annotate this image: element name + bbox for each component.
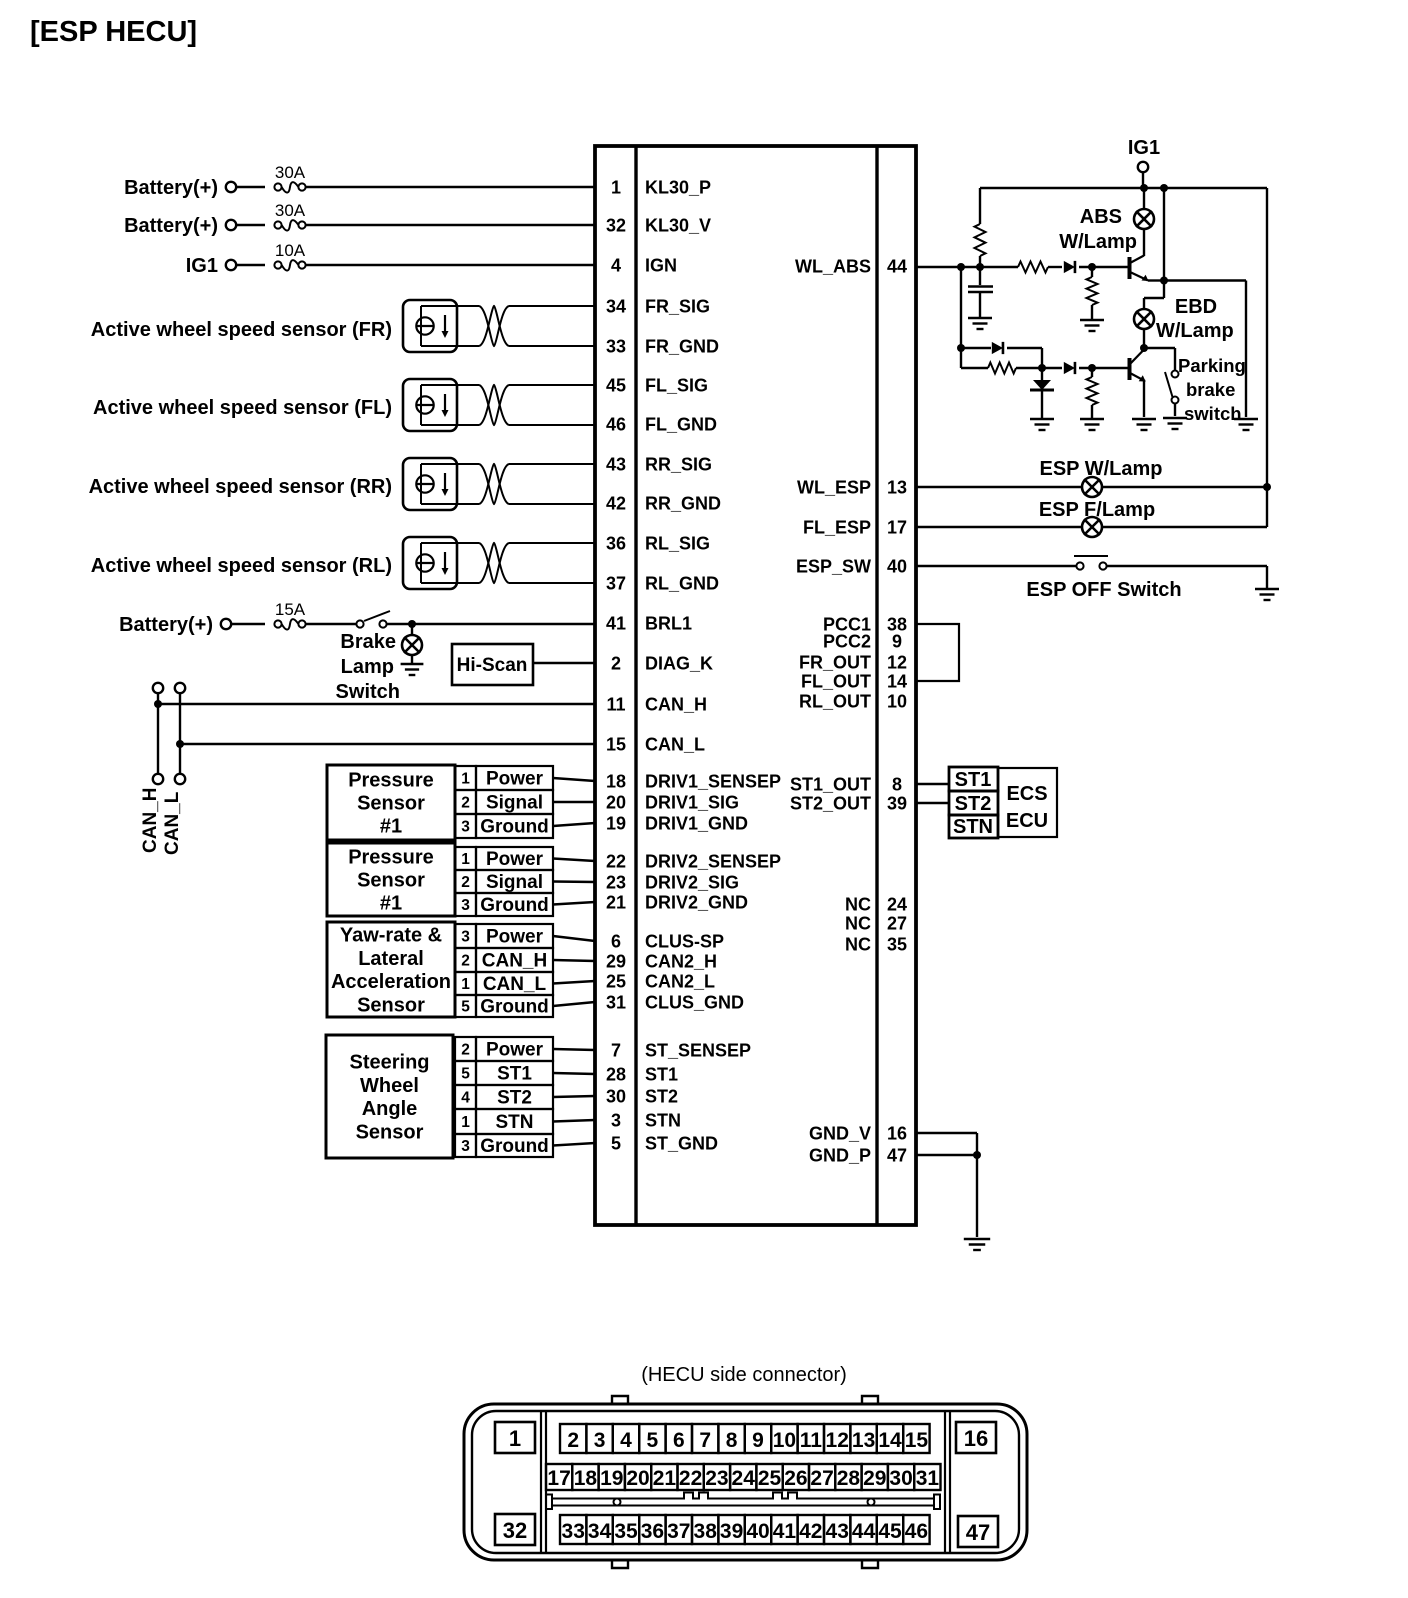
wire <box>1091 267 1093 277</box>
pin 22 DRIV2_SENSEP <box>606 852 781 872</box>
svg-text:WL_ESP: WL_ESP <box>797 478 871 498</box>
steering wheel angle sensor pin cell 1 STN <box>455 1109 553 1134</box>
connector right divider <box>944 1411 946 1553</box>
svg-text:16: 16 <box>964 1426 988 1451</box>
wire <box>553 1002 595 1006</box>
wire <box>1142 172 1144 188</box>
svg-text:39: 39 <box>887 794 907 814</box>
svg-text:13: 13 <box>887 478 907 498</box>
pin 15 CAN_L <box>606 735 705 755</box>
svg-text:IG1: IG1 <box>186 255 218 277</box>
twisted pair wires FR <box>457 306 595 346</box>
wire to pin 4 <box>305 264 595 266</box>
svg-text:Active wheel speed sensor (RR): Active wheel speed sensor (RR) <box>89 476 392 498</box>
svg-text:DRIV1_GND: DRIV1_GND <box>645 814 748 834</box>
junction brake lamp tap <box>408 620 416 628</box>
svg-text:28: 28 <box>606 1065 626 1085</box>
svg-text:30A: 30A <box>275 163 306 182</box>
svg-text:37: 37 <box>667 1520 690 1543</box>
pin 24 NC <box>845 895 907 915</box>
svg-text:Active wheel speed sensor (FL): Active wheel speed sensor (FL) <box>93 397 392 419</box>
svg-text:39: 39 <box>720 1520 743 1543</box>
resistor R4 <box>988 363 1016 374</box>
svg-text:15: 15 <box>606 735 626 755</box>
svg-text:ST2_OUT: ST2_OUT <box>790 794 871 814</box>
svg-text:ECU: ECU <box>1006 810 1048 832</box>
wire to pin 41 <box>387 623 595 625</box>
svg-text:2: 2 <box>461 874 470 891</box>
wire <box>411 624 413 635</box>
wire Q2 emitter to ground <box>1143 381 1145 417</box>
ground brake lamp <box>401 664 424 675</box>
pin 25 CAN2_L <box>606 972 715 992</box>
ESP function lamp <box>1082 517 1102 537</box>
svg-text:Power: Power <box>486 769 544 790</box>
svg-text:ESP W/Lamp: ESP W/Lamp <box>1040 458 1163 480</box>
junction Q1 base divider <box>1088 263 1096 271</box>
connector pin row 17-31 <box>546 1464 941 1490</box>
ground D3 <box>1030 419 1054 430</box>
pin 12 FR_OUT <box>799 653 907 673</box>
ground right leg <box>1234 419 1258 430</box>
svg-text:45: 45 <box>606 376 626 396</box>
wire <box>1102 526 1267 528</box>
ground R3 <box>1080 320 1104 331</box>
svg-text:Power: Power <box>486 1040 544 1061</box>
svg-text:1: 1 <box>461 851 470 868</box>
wire Q1 emitter <box>1148 279 1164 281</box>
steering wheel angle sensor pin cell 4 ST2 <box>455 1085 553 1109</box>
junction node B <box>976 263 984 271</box>
svg-text:STN: STN <box>645 1111 681 1131</box>
svg-text:DRIV1_SENSEP: DRIV1_SENSEP <box>645 772 781 792</box>
Hi-Scan box <box>452 644 533 685</box>
svg-text:Yaw-rate &: Yaw-rate & <box>340 925 442 947</box>
pin 11 CAN_H <box>606 695 707 715</box>
svg-text:Sensor: Sensor <box>356 1121 424 1143</box>
junction CAN_H <box>154 700 162 708</box>
svg-text:RR_GND: RR_GND <box>645 494 721 514</box>
svg-text:44: 44 <box>887 257 907 277</box>
svg-text:CAN_H: CAN_H <box>645 695 707 715</box>
wire ST1_OUT from pin 8 <box>916 783 949 785</box>
svg-text:38: 38 <box>694 1520 718 1543</box>
wire <box>236 224 265 226</box>
connector bottom tab 2 <box>862 1560 878 1568</box>
svg-text:37: 37 <box>606 574 626 594</box>
svg-text:13: 13 <box>852 1429 875 1452</box>
yaw-rate and lateral acceleration sensor pin cell 1 CAN_L <box>455 972 553 995</box>
transistor Q2 (NPN) <box>1130 350 1146 382</box>
wire <box>1174 348 1176 370</box>
svg-text:7: 7 <box>611 1041 621 1061</box>
svg-text:3: 3 <box>461 1138 470 1155</box>
pin 33 FR_GND <box>606 337 719 357</box>
pin 19 DRIV1_GND <box>606 814 748 834</box>
svg-text:30A: 30A <box>275 201 306 220</box>
svg-text:3: 3 <box>461 929 470 946</box>
svg-text:18: 18 <box>574 1467 598 1490</box>
pressure sensor #1 (A) pin cell 2 Signal <box>455 790 553 814</box>
connector key strip <box>546 1493 940 1510</box>
svg-text:FR_SIG: FR_SIG <box>645 297 710 317</box>
wire to pin 1 <box>305 186 595 188</box>
svg-text:45: 45 <box>878 1520 902 1543</box>
svg-text:ST_GND: ST_GND <box>645 1134 718 1154</box>
svg-text:KL30_P: KL30_P <box>645 178 711 198</box>
wire <box>231 623 265 625</box>
pressure sensor #1 (B) box <box>327 843 455 916</box>
svg-text:IG1: IG1 <box>1128 137 1160 159</box>
svg-text:19: 19 <box>606 814 626 834</box>
pressure sensor #1 (B) pin cell 2 Signal <box>455 870 553 893</box>
wire <box>553 778 595 781</box>
pin 30 ST2 <box>606 1087 678 1107</box>
svg-text:25: 25 <box>606 972 626 992</box>
svg-text:18: 18 <box>606 772 626 792</box>
svg-text:2: 2 <box>461 1042 470 1059</box>
wire <box>553 981 595 984</box>
wire <box>553 1049 595 1050</box>
pin 6 CLUS-SP <box>611 932 724 952</box>
ESP OFF switch <box>1074 556 1108 570</box>
svg-text:16: 16 <box>887 1124 907 1144</box>
junction ESP lamp rail <box>1263 483 1271 491</box>
terminal Battery(+) 3 <box>221 619 231 629</box>
ground parking brake switch <box>1163 418 1187 429</box>
svg-text:43: 43 <box>606 455 626 475</box>
wire lamp to Q1 collector <box>1143 229 1145 256</box>
svg-text:Wheel: Wheel <box>360 1075 419 1097</box>
svg-text:4: 4 <box>461 1090 470 1107</box>
svg-text:KL30_V: KL30_V <box>645 216 711 236</box>
pin 5 ST_GND <box>611 1134 718 1154</box>
resistor R3 <box>1087 277 1098 305</box>
HECU side connector outline <box>464 1404 1027 1560</box>
svg-text:W/Lamp: W/Lamp <box>1059 231 1137 253</box>
svg-text:47: 47 <box>887 1146 907 1166</box>
svg-text:W/Lamp: W/Lamp <box>1156 320 1234 342</box>
ground C1 <box>968 318 992 329</box>
connector pin 32 cell <box>495 1514 535 1545</box>
svg-text:STN: STN <box>953 816 993 838</box>
svg-text:19: 19 <box>600 1467 623 1490</box>
wire <box>1174 404 1176 417</box>
wire <box>1107 565 1267 567</box>
svg-text:36: 36 <box>606 534 626 554</box>
svg-text:20: 20 <box>626 1467 649 1490</box>
svg-text:40: 40 <box>746 1520 769 1543</box>
svg-text:Signal: Signal <box>486 793 543 814</box>
svg-text:(HECU side connector): (HECU side connector) <box>641 1364 847 1386</box>
svg-text:Sensor: Sensor <box>357 793 425 815</box>
svg-text:43: 43 <box>826 1520 849 1543</box>
pin 36 RL_SIG <box>606 534 710 554</box>
wire CAN_H to pin 11 <box>158 703 595 705</box>
wire <box>1266 566 1268 588</box>
fuse F1 30A <box>274 182 305 193</box>
wire <box>1007 347 1042 349</box>
svg-text:3: 3 <box>611 1111 621 1131</box>
brake lamp switch contacts <box>356 611 390 628</box>
pin 37 RL_GND <box>606 574 719 594</box>
yaw-rate and lateral acceleration sensor pin cell 2 CAN_H <box>455 948 553 972</box>
junction GND node <box>973 1151 981 1159</box>
wire to parking brake switch <box>1144 347 1175 349</box>
junction EBD collector node <box>1140 344 1148 352</box>
ECS ECU box <box>998 768 1057 837</box>
wire CAN_H vertical <box>157 693 159 774</box>
connector pin 1 cell <box>495 1422 535 1453</box>
svg-text:Ground: Ground <box>480 895 549 916</box>
svg-text:Ground: Ground <box>480 997 549 1018</box>
wire <box>553 1096 595 1097</box>
svg-text:31: 31 <box>606 993 626 1013</box>
svg-text:6: 6 <box>673 1429 685 1452</box>
wire ESP_SW from pin 40 <box>916 565 1076 567</box>
svg-text:DRIV2_SIG: DRIV2_SIG <box>645 873 739 893</box>
pin 46 FL_GND <box>606 415 717 435</box>
junction node A <box>957 263 965 271</box>
pin 40 ESP_SW <box>796 557 907 577</box>
svg-text:42: 42 <box>606 494 626 514</box>
svg-text:Sensor: Sensor <box>357 870 425 892</box>
svg-text:Active wheel speed sensor (RL): Active wheel speed sensor (RL) <box>91 555 392 577</box>
svg-text:32: 32 <box>606 216 626 236</box>
svg-text:RL_OUT: RL_OUT <box>799 692 871 712</box>
transistor Q1 (NPN) <box>1130 256 1149 282</box>
pin 39 ST2_OUT <box>790 794 907 814</box>
svg-text:ECS: ECS <box>1006 783 1047 805</box>
svg-text:25: 25 <box>758 1467 782 1490</box>
svg-text:27: 27 <box>887 914 907 934</box>
svg-text:11: 11 <box>800 1429 823 1452</box>
svg-text:3: 3 <box>461 819 470 836</box>
wire <box>1102 486 1267 488</box>
pin 13 WL_ESP <box>797 478 907 498</box>
junction CAN_L <box>176 740 184 748</box>
wire <box>1143 329 1145 348</box>
HECU left pin-number column divider <box>634 146 637 1225</box>
wire <box>1016 367 1042 369</box>
svg-text:PCC2: PCC2 <box>823 632 871 652</box>
svg-text:34: 34 <box>606 297 626 317</box>
diode D4 <box>1064 362 1075 374</box>
svg-text:2: 2 <box>461 795 470 812</box>
fuse F3 10A <box>274 260 305 271</box>
pin 35 NC <box>845 935 907 955</box>
svg-text:1: 1 <box>509 1426 521 1451</box>
wire <box>1042 367 1062 369</box>
svg-text:IGN: IGN <box>645 256 677 276</box>
svg-text:2: 2 <box>567 1429 579 1452</box>
svg-text:1: 1 <box>461 1114 470 1131</box>
svg-text:35: 35 <box>614 1520 638 1543</box>
svg-text:CAN_L: CAN_L <box>483 974 547 995</box>
svg-text:27: 27 <box>810 1467 833 1490</box>
svg-text:14: 14 <box>878 1429 902 1452</box>
wire GND_P from pin 47 <box>916 1154 977 1156</box>
terminal IG1 <box>226 260 236 270</box>
svg-text:Battery(+): Battery(+) <box>124 177 218 199</box>
wire <box>979 188 981 224</box>
svg-text:21: 21 <box>653 1467 677 1490</box>
wire <box>411 655 413 663</box>
pin 44 WL_ABS <box>795 257 907 277</box>
pin 17 FL_ESP <box>803 518 907 538</box>
svg-text:BRL1: BRL1 <box>645 614 692 634</box>
ECS ECU pin box ST2 <box>949 791 998 815</box>
svg-text:Lateral: Lateral <box>358 948 424 970</box>
svg-text:5: 5 <box>461 999 470 1016</box>
HECU right pin-number column divider <box>875 146 878 1225</box>
pin 38 PCC1 <box>823 615 907 635</box>
svg-text:DIAG_K: DIAG_K <box>645 654 713 674</box>
pin 41 BRL1 <box>606 614 692 634</box>
resistor R2 <box>1018 262 1048 273</box>
steering wheel angle sensor pin cell 5 ST1 <box>455 1061 553 1085</box>
svg-text:Steering: Steering <box>349 1052 429 1074</box>
twisted pair wires RR <box>457 464 595 504</box>
wire Hi-Scan to pin 2 DIAG_K <box>533 662 595 664</box>
svg-text:Pressure: Pressure <box>348 846 434 868</box>
svg-text:3: 3 <box>594 1429 606 1452</box>
svg-text:Hi-Scan: Hi-Scan <box>457 655 528 676</box>
svg-text:Brake: Brake <box>340 631 396 653</box>
resistor R1 <box>975 224 986 256</box>
pin 7 ST_SENSEP <box>611 1041 751 1061</box>
ground Q2 emitter <box>1132 419 1156 430</box>
pin 18 DRIV1_SENSEP <box>606 772 781 792</box>
wire ST2_OUT from pin 39 <box>916 802 949 804</box>
svg-text:Power: Power <box>486 927 544 948</box>
fuse F4 15A <box>274 619 305 630</box>
wire to EBD lamp <box>1143 298 1145 309</box>
svg-text:DRIV2_GND: DRIV2_GND <box>645 893 748 913</box>
pin 1 KL30_P <box>611 178 711 198</box>
wire GND_V from pin 16 <box>916 1132 977 1134</box>
svg-text:RL_SIG: RL_SIG <box>645 534 710 554</box>
terminal Battery(+) 2 <box>226 220 236 230</box>
junction IG1 rail / EBD feed <box>1160 184 1168 192</box>
svg-text:RL_GND: RL_GND <box>645 574 719 594</box>
wire jog <box>1144 297 1164 299</box>
wheel speed sensor RL <box>403 537 457 589</box>
svg-text:Battery(+): Battery(+) <box>119 614 213 636</box>
wire <box>1041 368 1043 380</box>
svg-text:47: 47 <box>966 1520 990 1545</box>
connector pin row 2-15 <box>560 1424 930 1453</box>
svg-text:46: 46 <box>905 1520 928 1543</box>
svg-text:15A: 15A <box>275 600 306 619</box>
svg-text:Pressure: Pressure <box>348 769 434 791</box>
wire <box>553 1143 595 1146</box>
svg-text:CAN_L: CAN_L <box>162 791 183 855</box>
svg-text:Signal: Signal <box>486 872 543 893</box>
svg-text:NC: NC <box>845 895 871 915</box>
svg-text:CAN2_L: CAN2_L <box>645 972 715 992</box>
pressure sensor #1 (A) pin cell 1 Power <box>455 766 553 790</box>
terminal CAN_H top <box>153 683 163 693</box>
wire <box>553 859 595 862</box>
wire from IG1 rail <box>1163 188 1165 281</box>
svg-text:7: 7 <box>699 1429 711 1452</box>
svg-text:29: 29 <box>606 952 626 972</box>
svg-text:6: 6 <box>611 932 621 952</box>
junction Q2 base divider <box>1088 364 1096 372</box>
pin 10 RL_OUT <box>799 692 907 712</box>
svg-text:ST2: ST2 <box>497 1088 532 1109</box>
wire CAN_L vertical <box>179 693 181 774</box>
yaw-rate and lateral acceleration sensor pin cell 3 Power <box>455 924 553 948</box>
zener diode D3 <box>1030 380 1054 390</box>
svg-text:2: 2 <box>461 953 470 970</box>
svg-text:2: 2 <box>611 654 621 674</box>
wheel speed sensor FR <box>403 300 457 352</box>
svg-text:1: 1 <box>461 976 470 993</box>
svg-text:10: 10 <box>773 1429 796 1452</box>
svg-text:12: 12 <box>826 1429 849 1452</box>
pin 23 DRIV2_SIG <box>606 873 739 893</box>
svg-text:CAN_H: CAN_H <box>140 788 161 853</box>
wire <box>236 264 265 266</box>
wire <box>305 623 356 625</box>
junction node D <box>1038 364 1046 372</box>
svg-text:switch: switch <box>1184 403 1242 424</box>
svg-text:1: 1 <box>611 178 621 198</box>
svg-text:33: 33 <box>562 1520 585 1543</box>
svg-text:40: 40 <box>887 557 907 577</box>
wire to Q2 base <box>1079 367 1128 369</box>
wire to right ground leg <box>1164 279 1246 281</box>
svg-text:42: 42 <box>799 1520 822 1543</box>
svg-text:Angle: Angle <box>362 1098 418 1120</box>
svg-text:4: 4 <box>620 1429 632 1452</box>
svg-text:NC: NC <box>845 935 871 955</box>
capacitor C1 <box>968 287 993 293</box>
wire <box>1041 390 1043 418</box>
terminal Battery(+) 1 <box>226 182 236 192</box>
yaw-rate and lateral acceleration sensor box <box>327 922 455 1017</box>
svg-text:FR_GND: FR_GND <box>645 337 719 357</box>
pin 16 GND_V <box>809 1124 907 1144</box>
wire <box>1091 368 1093 377</box>
pin 34 FR_SIG <box>606 297 710 317</box>
svg-text:10A: 10A <box>275 241 306 260</box>
ESP HECU connector box <box>595 146 916 1225</box>
pin 32 KL30_V <box>606 216 711 236</box>
pin 21 DRIV2_GND <box>606 893 748 913</box>
wire node A down <box>960 267 962 348</box>
EBD warning lamp <box>1134 309 1154 329</box>
ground ESP OFF switch <box>1255 589 1279 600</box>
svg-text:Ground: Ground <box>480 1136 549 1157</box>
svg-text:ST2: ST2 <box>645 1087 678 1107</box>
wire WL_ABS from pin 44 <box>916 266 1018 268</box>
pin 20 DRIV1_SIG <box>606 793 739 813</box>
svg-text:12: 12 <box>887 653 907 673</box>
svg-text:28: 28 <box>837 1467 861 1490</box>
ABS warning lamp <box>1134 209 1154 229</box>
pressure sensor #1 (A) pin cell 3 Ground <box>455 814 553 838</box>
svg-text:46: 46 <box>606 415 626 435</box>
svg-text:44: 44 <box>852 1520 876 1543</box>
wire <box>553 1073 595 1074</box>
svg-text:ST1: ST1 <box>497 1064 532 1085</box>
wire CAN_L to pin 15 <box>180 743 595 745</box>
wire <box>236 186 265 188</box>
wire <box>976 1155 978 1237</box>
